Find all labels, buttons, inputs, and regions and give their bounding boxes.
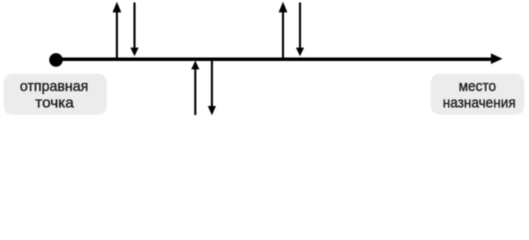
pair 2 up arrow shaft xyxy=(194,69,196,115)
pair 1 down arrowhead xyxy=(130,48,138,57)
pair 3 down arrowhead xyxy=(296,48,304,57)
destination label box xyxy=(431,74,524,115)
pair 1 up arrow shaft xyxy=(116,12,118,60)
pair 1 down arrow shaft xyxy=(133,3,135,48)
svg-text:отправная: отправная xyxy=(20,78,89,95)
start node dot xyxy=(49,53,63,67)
start label box xyxy=(4,74,107,115)
pair 3 up arrowhead xyxy=(279,2,288,13)
pair 3 up arrow shaft xyxy=(282,12,284,60)
pair 1 up arrowhead xyxy=(113,2,122,13)
pair 2 down arrowhead xyxy=(208,106,216,115)
pair 2 up arrowhead xyxy=(191,61,199,70)
timeline axis wire xyxy=(56,57,492,61)
timeline axis arrowhead xyxy=(491,53,503,64)
pair 3 down arrow shaft xyxy=(299,3,301,48)
svg-text:место: место xyxy=(459,78,497,95)
pair 2 down arrow shaft xyxy=(211,60,213,106)
svg-text:назначения: назначения xyxy=(443,94,516,111)
svg-text:точка: точка xyxy=(35,94,74,111)
